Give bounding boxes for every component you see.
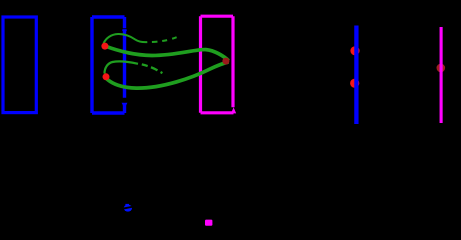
magenta label glyph (bottom caption) <box>205 220 212 226</box>
green worldline: dashed continuation from dot1 loop <box>152 37 177 42</box>
arrowhead on magenta rect bottom-right corner <box>231 107 236 113</box>
green worldline: thick upper strand dot1 to dot3 <box>106 46 229 61</box>
green worldline: thick lower strand dot2 to dot3 <box>106 62 229 88</box>
rectangle 3 (magenta torus cycle) <box>201 16 234 113</box>
rectangle 1 (left blue torus cycle) <box>3 17 36 113</box>
green worldline: dashed continuation from dot2 loop <box>142 64 163 73</box>
arrowhead on rect2 right edge (bottom) <box>122 103 128 109</box>
red anyon dot1 on rect2 <box>101 43 108 50</box>
green worldline: thin solid loop from dot1 <box>104 34 148 44</box>
red anyon dot2 on rect2 <box>103 73 110 80</box>
magenta vertical branch line (right figure) <box>440 27 443 123</box>
red genon dot lower on blue line <box>350 79 359 88</box>
blue label glyph (bottom left caption) <box>121 204 135 212</box>
rectangle 2 (middle blue torus cycle) <box>92 17 125 113</box>
dark red dot on magenta line <box>437 64 446 73</box>
blue vertical branch line (right figure) <box>354 26 358 125</box>
dark red anyon dot3 in magenta rect <box>222 58 229 65</box>
red genon dot upper on blue line <box>350 46 359 55</box>
green worldline: thin solid loop from dot2 <box>105 61 139 73</box>
